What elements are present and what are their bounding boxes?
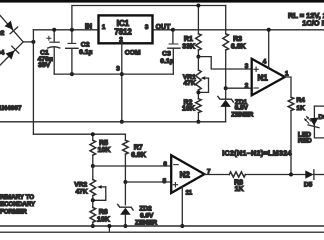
- node: COM x capacitor-common wire: [120, 72, 124, 76]
- svg-text:3: 3: [116, 66, 120, 73]
- node: pin 11 at bottom rail: [180, 224, 184, 228]
- svg-text:IC2(N1–N2)=LM324: IC2(N1–N2)=LM324: [222, 150, 292, 158]
- svg-text:6.8K: 6.8K: [131, 152, 146, 159]
- potentiometer VR1: [183, 57, 209, 99]
- node: R5 bottom / N2 pin 6: [91, 164, 95, 168]
- wire: N2 output: [204, 174, 229, 176]
- svg-text:0.1µ: 0.1µ: [79, 49, 92, 56]
- svg-text:PRIMARY TO: PRIMARY TO: [0, 194, 34, 201]
- node: R4/LED branch on N2 output: [289, 173, 293, 177]
- capacitor C1: [38, 30, 60, 74]
- wire: node up to IN rail: [32, 30, 34, 42]
- diode D2: [0, 15, 23, 42]
- svg-text:10K: 10K: [98, 147, 111, 154]
- node: R7 bottom / N2 pin 5 / ZD2: [123, 180, 127, 184]
- node: R1 top on top rail: [196, 4, 200, 8]
- svg-text:47K: 47K: [76, 188, 88, 195]
- ground rail: [0, 121, 226, 123]
- wire: node down to lower divider rail: [32, 42, 34, 134]
- svg-text:C3: C3: [162, 51, 171, 58]
- bottom supply rail: [0, 225, 324, 227]
- node: bridge + output: [31, 40, 35, 44]
- svg-text:R1: R1: [184, 36, 193, 43]
- svg-text:D4: D4: [0, 49, 5, 56]
- svg-text:1N4007: 1N4007: [0, 105, 22, 112]
- svg-text:11: 11: [186, 190, 193, 197]
- svg-text:COM: COM: [125, 49, 141, 56]
- node: R3 / ZD1 / N1 pin 2: [224, 86, 228, 90]
- wire: N1 output down: [285, 77, 291, 97]
- zener ZD1: [218, 88, 254, 122]
- svg-text:35V: 35V: [38, 62, 51, 69]
- wire: unregulated top rail: [72, 6, 226, 30]
- wire: N2 pin 11 down: [181, 187, 183, 226]
- wire: jog to N1 pin 3: [198, 57, 251, 69]
- diode D5: [304, 170, 324, 189]
- svg-text:R5: R5: [99, 140, 108, 147]
- resistor R8: [229, 172, 245, 193]
- node: N1 pin 4 on OUT rail: [267, 28, 271, 32]
- svg-text:D2: D2: [0, 30, 5, 37]
- svg-text:4: 4: [263, 59, 267, 66]
- svg-text:1C/O RELAY: 1C/O RELAY: [302, 18, 324, 27]
- svg-text:N2: N2: [180, 170, 191, 179]
- resistor R7: [123, 134, 146, 182]
- svg-text:1K: 1K: [296, 105, 305, 112]
- svg-text:IN: IN: [85, 23, 92, 30]
- op-amp N1: [245, 59, 289, 96]
- zener ZD2: [118, 182, 158, 226]
- node: R5 top on divider rail: [91, 132, 95, 136]
- wire: R8 to D5: [245, 174, 305, 176]
- resistor R4: [288, 97, 305, 174]
- op-amp N2: [163, 155, 211, 196]
- svg-text:R3: R3: [233, 36, 242, 43]
- svg-text:47K: 47K: [184, 80, 196, 87]
- svg-text:6: 6: [163, 161, 167, 168]
- node: ZD2 anode at bottom rail: [123, 224, 127, 228]
- svg-text:ZD2: ZD2: [139, 206, 152, 213]
- node: R1 bottom / VR1 top: [196, 55, 200, 59]
- resistor R2: [182, 99, 201, 122]
- stub to bottom frame line: [108, 226, 110, 232]
- node: VR1 bottom / wiper: [196, 90, 200, 94]
- node: C3 top on OUT rail: [171, 28, 175, 32]
- svg-text:10K: 10K: [97, 216, 110, 223]
- svg-text:R7: R7: [134, 145, 143, 152]
- svg-text:R6: R6: [99, 209, 108, 216]
- svg-text:6.8K: 6.8K: [231, 44, 246, 51]
- svg-text:1K: 1K: [235, 186, 244, 193]
- wire: regulated OUT rail: [154, 29, 324, 31]
- svg-text:3: 3: [245, 63, 249, 70]
- svg-text:7812: 7812: [114, 28, 132, 37]
- svg-text:3: 3: [145, 24, 149, 31]
- svg-text:SECONDARY: SECONDARY: [0, 201, 36, 208]
- svg-text:TRANSFORMER: TRANSFORMER: [0, 209, 27, 216]
- node: C1 top on IN rail: [52, 28, 56, 32]
- svg-text:5: 5: [163, 178, 167, 185]
- wire: lower divider rail: [33, 133, 125, 135]
- node: C2 top / top rail branch: [70, 28, 74, 32]
- svg-text:10K: 10K: [182, 106, 195, 113]
- node: R2 bottom at ground rail: [196, 120, 200, 124]
- node: stub at bottom rail: [107, 224, 111, 228]
- resistor R6: [90, 208, 110, 227]
- node: C2 bottom: [70, 72, 74, 76]
- resistor R1: [182, 6, 201, 57]
- IC1 7812 regulator: [85, 15, 171, 43]
- svg-text:N1: N1: [258, 74, 269, 83]
- wire: capacitor bottoms common: [54, 73, 173, 75]
- node: R6 bottom at bottom rail: [91, 224, 95, 228]
- wire: to N1 pin 2: [226, 87, 252, 89]
- capacitor C2: [66, 30, 93, 74]
- svg-text:33K: 33K: [182, 43, 195, 50]
- node: VR2 bottom / wiper: [91, 198, 95, 202]
- wire: to N2 pin 5: [125, 181, 171, 183]
- resistor R5: [90, 134, 110, 166]
- svg-text:ZENER: ZENER: [231, 111, 253, 118]
- svg-text:0.1µ: 0.1µ: [160, 58, 173, 65]
- node: COM at ground rail: [120, 120, 124, 124]
- resistor R3: [223, 6, 246, 89]
- potentiometer VR2: [74, 166, 106, 208]
- wire: COM pin down to ground rail: [121, 43, 123, 122]
- capacitor C3: [160, 30, 180, 74]
- svg-text:RED: RED: [298, 138, 312, 145]
- wire: N1 pin 4 to OUT rail: [268, 30, 270, 68]
- top border frame: [0, 0, 324, 3]
- wire: IN rail to IC1: [33, 29, 97, 31]
- wire: to N2 pin 6: [93, 165, 171, 167]
- svg-text:1: 1: [285, 70, 289, 77]
- LED with D6: [298, 106, 324, 145]
- svg-text:1: 1: [102, 24, 106, 31]
- svg-text:R4: R4: [296, 97, 305, 104]
- svg-text:2: 2: [245, 83, 249, 90]
- svg-text:D5: D5: [304, 181, 313, 188]
- svg-text:2: 2: [119, 37, 123, 44]
- diode D4: [0, 42, 23, 65]
- svg-text:C2: C2: [81, 42, 90, 49]
- bottom frame line: [0, 231, 324, 233]
- svg-text:D6: D6: [318, 114, 324, 121]
- wire: bridge output to node: [23, 41, 33, 43]
